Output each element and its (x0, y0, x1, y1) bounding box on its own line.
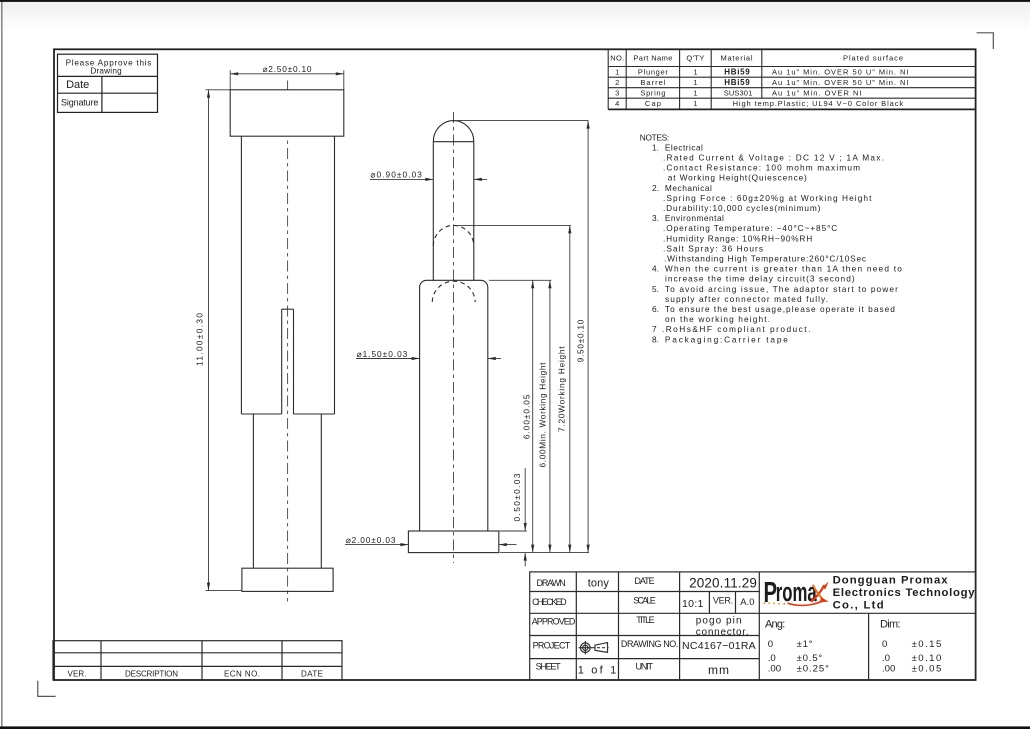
svg-text:High temp.Plastic; UL94 V−0 Co: High temp.Plastic; UL94 V−0 Color Black (733, 99, 904, 108)
svg-text:⌀0.90±0.03: ⌀0.90±0.03 (370, 170, 422, 180)
arrows vertical dims (524, 121, 590, 561)
vertical dim line 0.50 (524, 468, 526, 531)
logo x flame tip (822, 582, 829, 590)
svg-text:connector.: connector. (696, 627, 749, 638)
barrel outline (420, 280, 488, 531)
dim 11.00 extension lines (206, 90, 242, 591)
svg-text:⌀1.50±0.03: ⌀1.50±0.03 (357, 349, 408, 359)
svg-text:To ensure the best usage,pleas: To ensure the best usage,please operate … (665, 304, 895, 314)
logo underline swoosh (788, 600, 825, 606)
revision table (53, 641, 342, 680)
svg-text:NOTES:: NOTES: (640, 132, 669, 142)
svg-text:1: 1 (693, 78, 697, 87)
drawing frame (54, 49, 976, 680)
plunger dome (433, 121, 474, 142)
svg-text:±0.25°: ±0.25° (797, 663, 830, 674)
svg-text:.00: .00 (768, 663, 781, 674)
svg-text:6.00Min. Working Height: 6.00Min. Working Height (537, 362, 547, 468)
svg-text:.00: .00 (882, 663, 895, 674)
svg-text:2: 2 (615, 78, 619, 87)
body bottom edges (241, 413, 281, 415)
svg-text:5.: 5. (652, 284, 659, 294)
svg-text:Electronics Technology: Electronics Technology (833, 587, 976, 599)
svg-text:7 .RoHs&HF compliant product.: 7 .RoHs&HF compliant product. (652, 324, 810, 334)
svg-text:.Durability:10,000 cycles(mini: .Durability:10,000 cycles(minimum) (663, 203, 821, 213)
scan border top strip (0, 0, 1030, 2)
NOTES text block (640, 132, 902, 344)
dim 1.50 leader (356, 358, 501, 360)
RIGHT VIEW (345, 112, 590, 567)
svg-text:on the working height.: on the working height. (665, 314, 770, 324)
svg-text:2.: 2. (652, 183, 659, 193)
corner mark top-right (977, 33, 994, 49)
svg-text:P: P (764, 577, 778, 609)
svg-text:Q'TY: Q'TY (686, 54, 704, 63)
dim 11.00 arrows (207, 90, 210, 98)
svg-text:.Contact Resistance: 100 mohm: .Contact Resistance: 100 mohm maximum (663, 163, 860, 173)
svg-text:2020.11.29: 2020.11.29 (689, 575, 757, 590)
dim 11.00 line (208, 90, 210, 591)
scan border left line (1, 2, 2, 727)
svg-text:NO.: NO. (610, 54, 624, 63)
svg-text:at Working Height(Quiescence): at Working Height(Quiescence) (668, 173, 807, 183)
dim 2.50 arrows (230, 72, 238, 75)
svg-text:mm: mm (708, 663, 729, 677)
dim 0.90 leader (370, 178, 487, 180)
svg-text:UNIT: UNIT (636, 661, 654, 671)
svg-text:0: 0 (768, 639, 773, 650)
svg-text:VER.: VER. (713, 596, 733, 606)
svg-text:10:1: 10:1 (682, 598, 704, 610)
svg-text:CHECKED: CHECKED (532, 597, 567, 607)
svg-text:VER.: VER. (68, 670, 87, 679)
svg-text:DRAWN: DRAWN (537, 578, 566, 588)
svg-text:1: 1 (693, 68, 697, 77)
plunger sides (432, 142, 434, 281)
svg-text:Barrel: Barrel (640, 78, 665, 87)
dim 2.50 extension lines (230, 70, 344, 90)
PROMAX LOGO (764, 577, 829, 609)
svg-text:PROJECT: PROJECT (533, 641, 571, 651)
svg-text:1.: 1. (652, 142, 659, 152)
flange outline (408, 531, 498, 553)
LEFT VIEW (195, 64, 344, 601)
svg-text:Plated surface: Plated surface (843, 54, 903, 63)
dim 2.50 line (230, 73, 344, 75)
scan border bottom strip (0, 726, 1030, 729)
approval box (58, 54, 158, 112)
svg-text:Material: Material (721, 54, 753, 63)
parts table lines (608, 49, 975, 109)
svg-text:ECN NO.: ECN NO. (224, 670, 260, 679)
svg-text:HBi59: HBi59 (724, 78, 750, 87)
parts table text (610, 54, 908, 109)
svg-text:.Salt Spray: 36 Hours: .Salt Spray: 36 Hours (663, 243, 763, 253)
svg-text:SUS301: SUS301 (724, 89, 753, 98)
svg-text:±1°: ±1° (797, 639, 813, 650)
svg-text:0.50±0.03: 0.50±0.03 (512, 473, 522, 521)
svg-text:⌀2.00±0.03: ⌀2.00±0.03 (346, 535, 396, 545)
svg-text:APPROVED: APPROVED (532, 616, 576, 626)
vertical dim line 9.50 (587, 121, 589, 553)
svg-text:DATE: DATE (301, 670, 323, 679)
svg-text:11.00±0.30: 11.00±0.30 (195, 313, 205, 366)
svg-text:0: 0 (882, 639, 887, 650)
svg-text:Date: Date (66, 79, 89, 91)
svg-text:SCALE: SCALE (633, 595, 656, 605)
svg-text:Mechanical: Mechanical (665, 183, 712, 193)
right side extension lines (456, 121, 590, 567)
svg-text:1: 1 (693, 99, 697, 108)
svg-text:6.: 6. (652, 304, 659, 314)
logo x swoosh stroke 2 (813, 585, 823, 600)
svg-text:DESCRIPTION: DESCRIPTION (125, 670, 178, 679)
svg-text:7.20Working Height: 7.20Working Height (557, 346, 567, 432)
svg-text:±0.05: ±0.05 (912, 663, 942, 674)
svg-text:tony: tony (588, 578, 610, 590)
vertical dim line 6.00 min (549, 280, 551, 552)
svg-text:Dongguan Promax: Dongguan Promax (833, 575, 949, 587)
svg-text:.Spring Force : 60g±20%g at Wo: .Spring Force : 60g±20%g at Working Heig… (663, 193, 872, 203)
TITLE BLOCK (530, 572, 976, 680)
svg-text:4.: 4. (652, 264, 659, 274)
slot rectangle (282, 308, 294, 310)
svg-text:NC4167−01RA: NC4167−01RA (682, 640, 756, 652)
svg-text:A.0: A.0 (740, 597, 754, 608)
svg-text:.Humidity Range: 10%RH~90%RH: .Humidity Range: 10%RH~90%RH (663, 233, 812, 243)
svg-text:increase the time delay circui: increase the time delay circuit(3 second… (665, 274, 855, 284)
svg-text:.Operating Temperature: −40°C~: .Operating Temperature: −40°C~+85°C (663, 223, 837, 233)
body sides (240, 136, 242, 414)
svg-text:.Withstanding High Temperature: .Withstanding High Temperature:260°C/10S… (664, 254, 866, 264)
svg-text:To avoid arcing issue, The ada: To avoid arcing issue, The adaptor start… (665, 284, 898, 294)
tolerance block ang (765, 618, 941, 674)
svg-text:3.: 3. (652, 213, 659, 223)
svg-text:.Rated Current & Voltage : DC: .Rated Current & Voltage : DC 12 V ; 1A … (663, 153, 884, 163)
svg-text:DRAWING NO.: DRAWING NO. (621, 639, 679, 649)
svg-text:Drawing: Drawing (90, 66, 122, 75)
svg-text:4: 4 (615, 99, 619, 108)
cap outline (230, 90, 344, 136)
svg-text:9.50±0.10: 9.50±0.10 (576, 319, 586, 362)
svg-text:Electrical: Electrical (665, 142, 703, 152)
flange outline (242, 568, 333, 591)
centerline right view (453, 112, 455, 563)
svg-text:Co., Ltd: Co., Ltd (833, 600, 884, 612)
svg-text:Dim:: Dim: (880, 618, 901, 630)
svg-text:Signature: Signature (61, 97, 98, 107)
svg-text:roma: roma (776, 577, 817, 607)
svg-text:Environmental: Environmental (665, 213, 724, 223)
svg-text:8.: 8. (652, 334, 659, 344)
svg-text:1: 1 (693, 89, 697, 98)
svg-text:Au 1u” Min. OVER 50 U” Min. NI: Au 1u” Min. OVER 50 U” Min. NI (772, 68, 909, 77)
logo x foot wedge (820, 597, 829, 602)
svg-text:1 of 1: 1 of 1 (578, 665, 617, 677)
svg-text:Cap: Cap (645, 99, 661, 108)
svg-text:pogo pin: pogo pin (696, 616, 742, 627)
svg-text:6.00±0.05: 6.00±0.05 (521, 394, 531, 439)
svg-text:⌀2.50±0.10: ⌀2.50±0.10 (263, 64, 312, 74)
svg-text:1: 1 (615, 68, 619, 77)
company name (833, 575, 976, 612)
logo x swoosh stroke 1 (811, 585, 824, 602)
hidden ball arc lower (432, 281, 475, 302)
lower barrel sides (252, 414, 254, 568)
svg-text:Plunger: Plunger (638, 68, 669, 77)
projection symbol (579, 641, 609, 654)
svg-text:When the current is greater th: When the current is greater than 1A then… (665, 264, 902, 274)
svg-text:SHEET: SHEET (536, 662, 562, 672)
logo dots (764, 602, 786, 605)
approval box text (61, 59, 151, 108)
svg-text:±0.15: ±0.15 (912, 639, 942, 650)
svg-text:Au 1u” Min. OVER 50 U” Min. NI: Au 1u” Min. OVER 50 U” Min. NI (772, 78, 909, 87)
svg-text:supply after connector mated f: supply after connector mated fully. (665, 294, 828, 304)
svg-text:Ang:: Ang: (765, 618, 785, 630)
revision table labels (68, 670, 324, 679)
svg-text:TITLE: TITLE (636, 615, 654, 625)
svg-text:Part Name: Part Name (633, 54, 672, 63)
centerline left view (287, 81, 289, 602)
svg-text:HBi59: HBi59 (724, 67, 750, 76)
svg-text:DATE: DATE (634, 576, 654, 586)
vertical dim line 7.20 (569, 225, 571, 552)
hidden ball arc upper (433, 225, 474, 246)
dim 2.00 leader (345, 544, 517, 546)
svg-text:Spring: Spring (640, 89, 665, 98)
svg-text:3: 3 (615, 89, 619, 98)
corner mark bottom-left (38, 681, 56, 697)
svg-text:Au 1u” Min. OVER NI: Au 1u” Min. OVER NI (772, 89, 862, 98)
vertical dim line 6.00 (532, 280, 534, 552)
